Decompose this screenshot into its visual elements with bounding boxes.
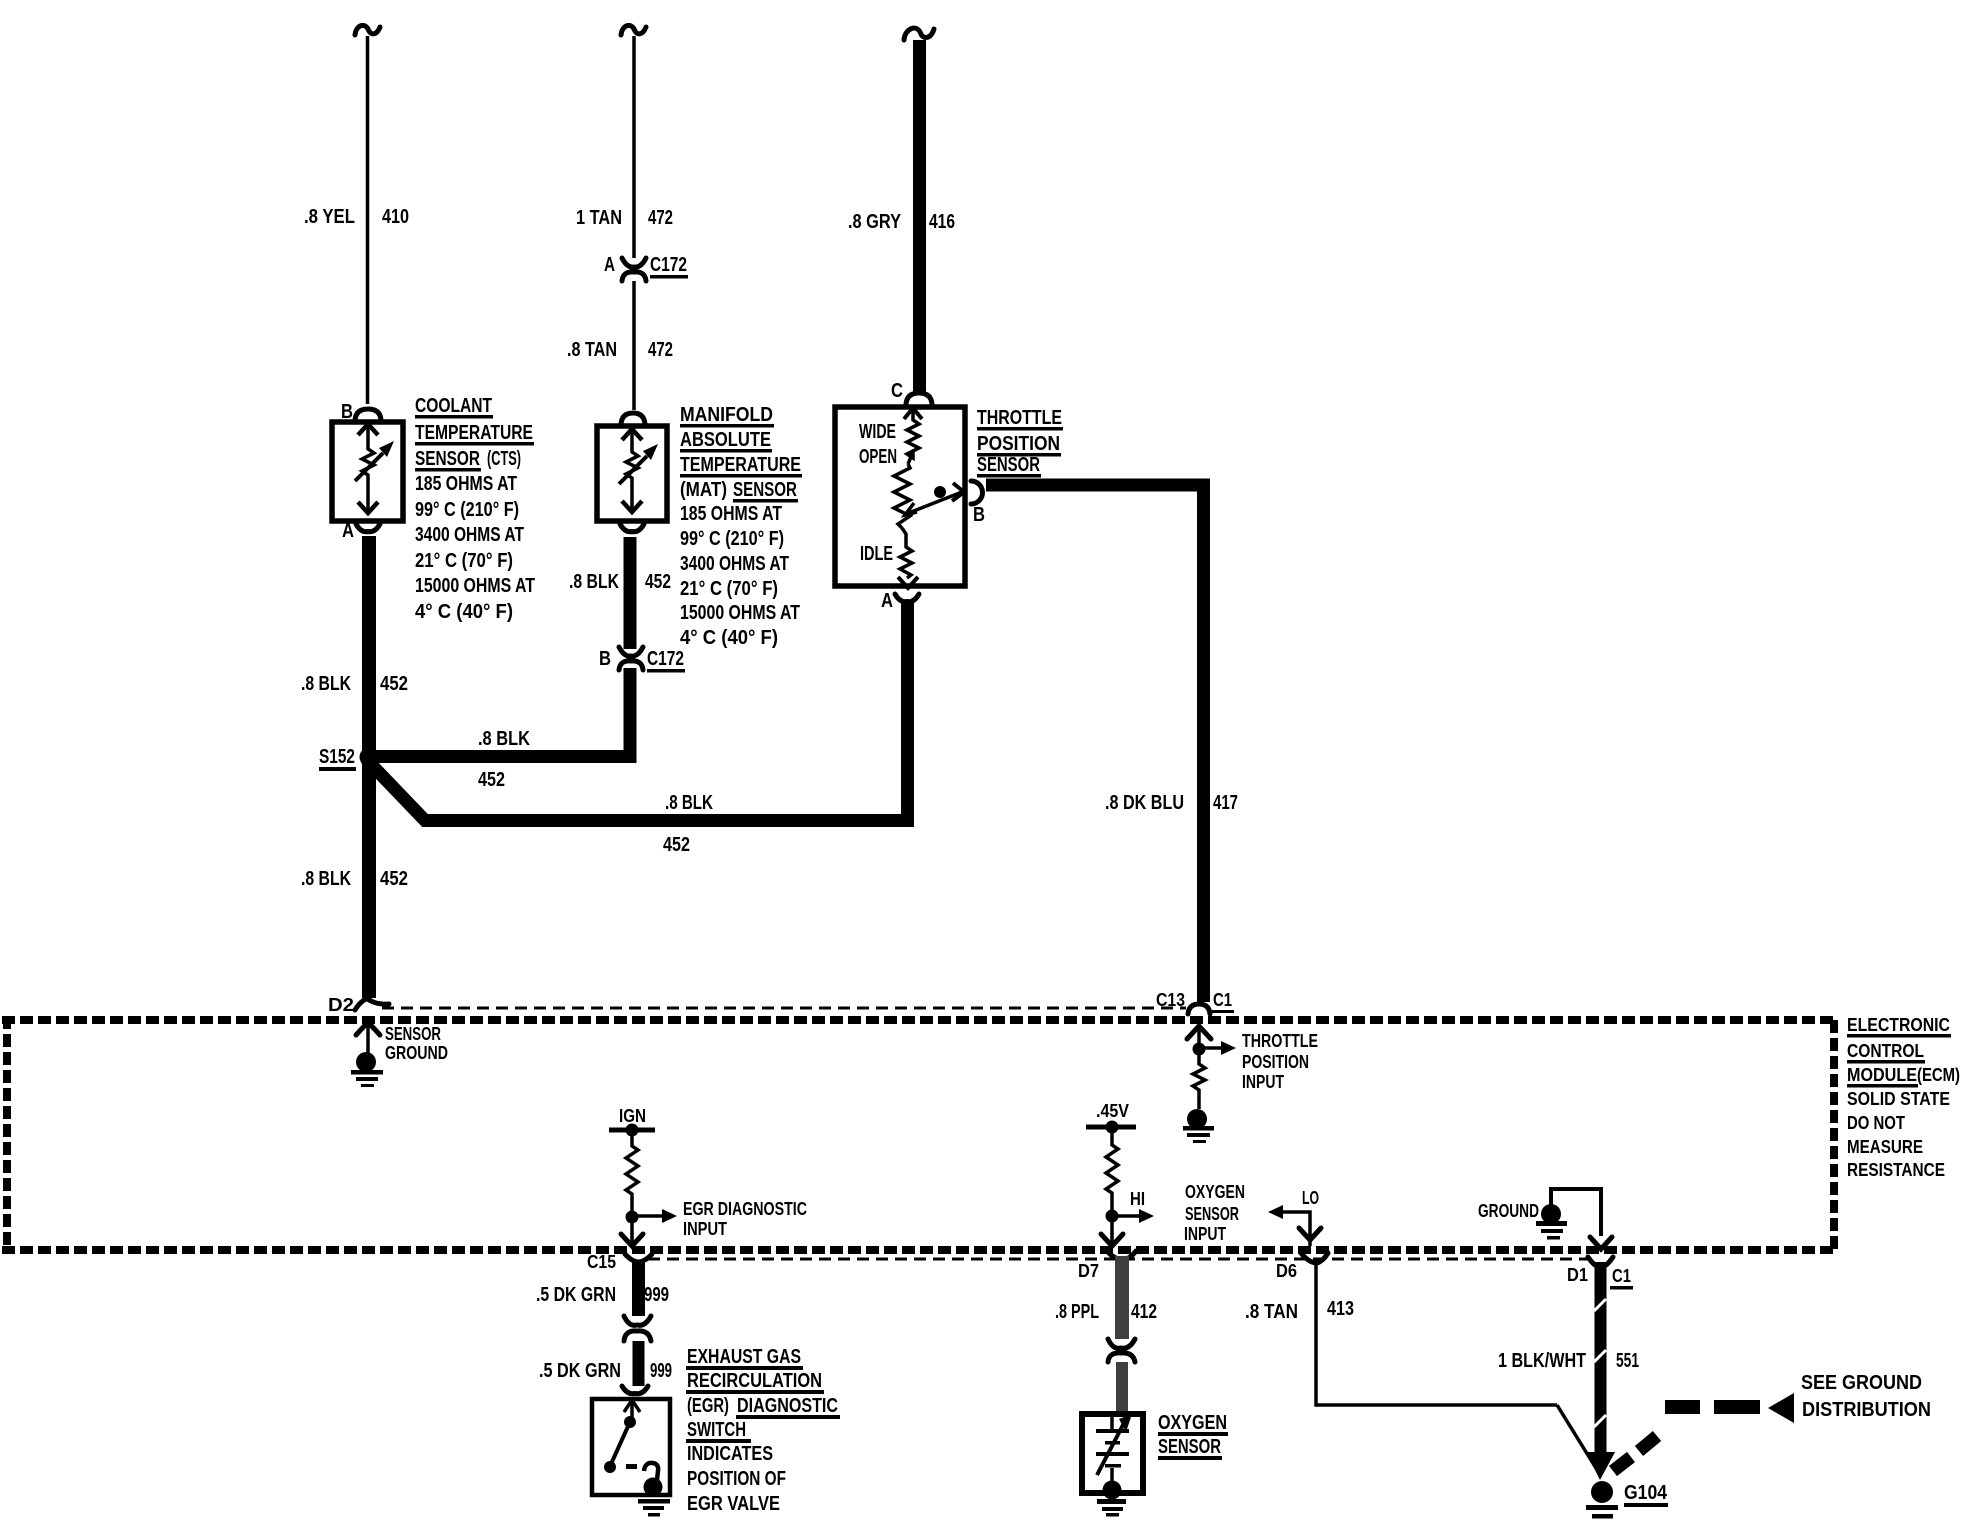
svg-text:1 TAN: 1 TAN <box>576 207 622 229</box>
svg-text:EXHAUST GAS: EXHAUST GAS <box>687 1346 801 1368</box>
svg-text:15000 OHMS AT: 15000 OHMS AT <box>415 575 535 597</box>
EGR switch symbol <box>604 1400 663 1497</box>
svg-text:.45V: .45V <box>1096 1101 1129 1121</box>
connector C172 (B) inline <box>619 647 643 670</box>
EGR switch title text <box>686 1346 840 1515</box>
svg-text:4° C (40° F): 4° C (40° F) <box>415 601 513 623</box>
throttle position input node dot <box>1193 1043 1206 1056</box>
svg-text:452: 452 <box>663 834 690 856</box>
throttle position input arrow inside ECM <box>1187 1026 1211 1045</box>
svg-text:SENSOR: SENSOR <box>977 454 1040 476</box>
svg-text:EGR DIAGNOSTIC: EGR DIAGNOSTIC <box>683 1199 807 1219</box>
svg-text:GROUND: GROUND <box>385 1043 448 1063</box>
svg-text:SWITCH: SWITCH <box>687 1419 746 1441</box>
svg-text:472: 472 <box>648 207 673 229</box>
svg-text:.8 PPL: .8 PPL <box>1055 1301 1099 1323</box>
svg-text:POSITION OF: POSITION OF <box>687 1468 786 1490</box>
svg-text:INPUT: INPUT <box>1242 1072 1284 1092</box>
svg-text:MEASURE: MEASURE <box>1847 1137 1923 1157</box>
svg-text:.8 GRY: .8 GRY <box>848 211 902 233</box>
svg-text:MODULE: MODULE <box>1847 1065 1917 1085</box>
connector gull at D7 <box>1107 1251 1122 1260</box>
svg-text:SENSOR: SENSOR <box>733 479 797 501</box>
svg-text:4° C (40° F): 4° C (40° F) <box>680 627 778 649</box>
EGR DIAGNOSTIC INPUT label <box>683 1199 807 1239</box>
svg-text:OPEN: OPEN <box>859 446 897 468</box>
ECM dashed border right <box>1830 1020 1838 1250</box>
wire 452 riser upper segment <box>624 537 637 649</box>
svg-text:452: 452 <box>380 673 408 695</box>
svg-text:452: 452 <box>380 868 408 890</box>
connector dashed line C15 to D1 <box>648 1258 1588 1261</box>
svg-text:SENSOR: SENSOR <box>1185 1204 1239 1224</box>
connector pin A gull at CTS bottom <box>356 524 380 532</box>
connector C13 dome <box>1188 1004 1210 1014</box>
svg-text:G104: G104 <box>1624 1482 1668 1504</box>
svg-text:OXYGEN: OXYGEN <box>1185 1182 1245 1202</box>
svg-text:185 OHMS AT: 185 OHMS AT <box>680 503 782 525</box>
svg-text:SOLID STATE: SOLID STATE <box>1847 1089 1950 1109</box>
throttle position input right arrow <box>1199 1041 1236 1055</box>
svg-text:C172: C172 <box>647 648 684 670</box>
wire 452 S152 down to ECM D2 <box>362 757 376 998</box>
svg-text:21° C (70° F): 21° C (70° F) <box>680 578 778 600</box>
coolant temperature sensor CTS box <box>332 422 403 521</box>
wire 999 (.5 DK GRN) lower segment <box>633 1341 645 1386</box>
svg-text:RECIRCULATION: RECIRCULATION <box>687 1370 822 1392</box>
wire 999 (.5 DK GRN) upper stub <box>632 1260 645 1316</box>
svg-text:WIDE: WIDE <box>859 421 896 443</box>
svg-text:.8 TAN: .8 TAN <box>1245 1301 1298 1323</box>
svg-text:185 OHMS AT: 185 OHMS AT <box>415 473 517 495</box>
thermistor symbol in CTS <box>355 424 394 513</box>
svg-text:(ECM): (ECM) <box>1917 1065 1960 1085</box>
reference arrow to ground distribution <box>1768 1393 1794 1423</box>
svg-text:SEE GROUND: SEE GROUND <box>1801 1372 1922 1394</box>
svg-text:.8 BLK: .8 BLK <box>301 673 351 695</box>
svg-text:417: 417 <box>1213 792 1238 814</box>
wire 417 (.8 DK BLU) from TPS B <box>986 485 1204 1002</box>
svg-text:.8 BLK: .8 BLK <box>478 728 530 750</box>
connector C172 (A) inline <box>622 258 646 281</box>
wire 410 (.8 YEL) vertical <box>366 36 370 404</box>
ECM dashed border left <box>3 1016 11 1252</box>
resistor from .45V <box>1106 1130 1118 1211</box>
EGR down arrow to C15 <box>621 1217 643 1246</box>
THROTTLE POSITION INPUT label <box>1242 1031 1318 1092</box>
svg-text:ABSOLUTE: ABSOLUTE <box>680 429 771 451</box>
connector pin A gull at TPS bottom <box>895 594 919 602</box>
svg-text:410: 410 <box>382 206 409 228</box>
svg-text:C1: C1 <box>1612 1266 1631 1286</box>
svg-text:IGN: IGN <box>619 1106 646 1126</box>
sensor ground symbol inside ECM <box>351 1052 383 1087</box>
svg-text:3400 OHMS AT: 3400 OHMS AT <box>680 553 789 575</box>
resistor inside ECM below TPI dot <box>1193 1055 1205 1109</box>
svg-text:.5 DK GRN: .5 DK GRN <box>536 1284 616 1306</box>
svg-text:(CTS): (CTS) <box>487 448 521 470</box>
svg-text:D1: D1 <box>1567 1265 1588 1285</box>
svg-text:99° C (210° F): 99° C (210° F) <box>680 528 784 550</box>
svg-text:15000 OHMS AT: 15000 OHMS AT <box>680 602 800 624</box>
svg-text:.5 DK GRN: .5 DK GRN <box>539 1360 621 1382</box>
svg-text:THROTTLE: THROTTLE <box>1242 1031 1318 1051</box>
svg-text:A: A <box>604 254 615 276</box>
wire 472 (.8 TAN) lower vertical <box>632 281 636 410</box>
ground symbol below oxygen sensor <box>1097 1499 1126 1517</box>
svg-text:THROTTLE: THROTTLE <box>977 407 1062 429</box>
EGR diagnostic switch box <box>592 1399 670 1495</box>
MAT title text <box>680 404 802 649</box>
svg-text:INDICATES: INDICATES <box>687 1443 773 1465</box>
.45V feed bar and dot <box>1086 1121 1136 1134</box>
svg-text:.8 DK BLU: .8 DK BLU <box>1105 792 1184 814</box>
svg-text:TEMPERATURE: TEMPERATURE <box>415 422 533 444</box>
wire 413 (.8 TAN) from D6 <box>1316 1262 1557 1405</box>
connector inline at O2 harness <box>1108 1339 1135 1362</box>
svg-text:HI: HI <box>1130 1189 1145 1209</box>
svg-text:B: B <box>599 648 611 670</box>
wire 412 lower segment <box>1116 1362 1128 1413</box>
svg-text:452: 452 <box>478 769 505 791</box>
wire 452 S152 to MAT riser <box>369 668 630 757</box>
ECM title text <box>1847 1015 1960 1180</box>
svg-text:.8 YEL: .8 YEL <box>304 206 355 228</box>
svg-text:.8 BLK: .8 BLK <box>665 792 713 814</box>
svg-text:1 BLK/WHT: 1 BLK/WHT <box>1498 1350 1586 1372</box>
OXYGEN SENSOR title <box>1158 1412 1228 1460</box>
wire 452 S152 diagonal to TPS A <box>366 603 908 821</box>
CTS title text <box>415 395 535 623</box>
HI right arrow <box>1112 1209 1154 1223</box>
svg-text:551: 551 <box>1616 1350 1639 1372</box>
connector pin C dome at TPS top <box>906 393 932 404</box>
LO elbow with left arrow to D6 <box>1268 1205 1321 1246</box>
svg-text:D6: D6 <box>1276 1261 1297 1281</box>
wire 413 diagonal into G104 <box>1557 1405 1599 1473</box>
svg-text:C172: C172 <box>650 254 687 276</box>
ground symbol below EGR switch <box>638 1499 670 1517</box>
connector gull at C15 <box>625 1254 638 1262</box>
svg-text:GROUND: GROUND <box>1478 1201 1539 1221</box>
svg-text:(MAT): (MAT) <box>680 479 727 501</box>
svg-text:413: 413 <box>1327 1298 1354 1320</box>
svg-text:POSITION: POSITION <box>1242 1052 1309 1072</box>
oxygen sensor box <box>1082 1414 1143 1493</box>
svg-text:DO NOT: DO NOT <box>1847 1113 1905 1133</box>
wire 410 continuation curl <box>355 25 380 35</box>
svg-text:SENSOR: SENSOR <box>1158 1436 1221 1458</box>
ground symbol inside ECM at TPI <box>1183 1109 1214 1143</box>
svg-text:DISTRIBUTION: DISTRIBUTION <box>1802 1399 1931 1421</box>
ground G104 symbol <box>1586 1481 1618 1519</box>
throttle position sensor TPS box <box>835 407 965 586</box>
svg-text:OXYGEN: OXYGEN <box>1158 1412 1227 1434</box>
svg-text:99° C (210° F): 99° C (210° F) <box>415 499 519 521</box>
svg-text:999: 999 <box>644 1284 669 1306</box>
connector gull at EGR switch <box>622 1386 648 1394</box>
IGN feed bar and dot <box>609 1124 655 1137</box>
svg-text:IDLE: IDLE <box>860 543 893 565</box>
svg-text:999: 999 <box>650 1360 672 1382</box>
wire 472 continuation curl <box>621 25 646 35</box>
wire 412 (.8 PPL) upper stub <box>1115 1256 1129 1339</box>
svg-text:416: 416 <box>929 211 955 233</box>
svg-text:SENSOR: SENSOR <box>385 1024 441 1044</box>
svg-text:A: A <box>881 590 893 612</box>
OXYGEN SENSOR INPUT label <box>1184 1182 1245 1244</box>
thermistor symbol in MAT <box>619 429 658 512</box>
svg-text:(EGR): (EGR) <box>687 1395 729 1417</box>
splice S152 junction dot <box>360 748 379 767</box>
svg-text:.8 BLK: .8 BLK <box>301 868 351 890</box>
ground symbol inside ECM right <box>1536 1204 1567 1240</box>
ECM dashed border bottom <box>2 1246 1833 1254</box>
svg-text:LO: LO <box>1302 1188 1319 1208</box>
EGR diagnostic node dot <box>626 1211 639 1224</box>
svg-text:RESISTANCE: RESISTANCE <box>1847 1160 1945 1180</box>
resistor from IGN <box>626 1133 638 1212</box>
svg-text:.8 BLK: .8 BLK <box>569 571 619 593</box>
EGR diagnostic right arrow <box>632 1209 677 1223</box>
svg-text:C15: C15 <box>587 1252 616 1272</box>
oxygen sensor input HI node dot <box>1106 1210 1119 1223</box>
TPS title text <box>977 407 1063 478</box>
dashed reference wire to ground distribution <box>1613 1400 1760 1471</box>
connector pin B dome at CTS top <box>355 409 381 420</box>
wire 472 (1 TAN) upper vertical <box>632 36 636 258</box>
svg-text:INPUT: INPUT <box>683 1219 727 1239</box>
SEE GROUND DISTRIBUTION label <box>1801 1372 1931 1421</box>
HI down arrow to D7 <box>1101 1216 1123 1246</box>
svg-text:D7: D7 <box>1078 1261 1099 1281</box>
svg-text:C: C <box>891 380 903 402</box>
svg-text:INPUT: INPUT <box>1184 1224 1226 1244</box>
svg-text:.8 TAN: .8 TAN <box>567 339 617 361</box>
wire 416 continuation curl <box>904 28 934 40</box>
connector gull at D1 <box>1588 1257 1600 1268</box>
svg-text:472: 472 <box>648 339 673 361</box>
ECM dashed border top <box>2 1016 1838 1024</box>
connector gull at MAT bottom <box>620 524 644 532</box>
potentiometer symbol in TPS <box>894 408 964 588</box>
svg-text:DIAGNOSTIC: DIAGNOSTIC <box>737 1395 838 1417</box>
svg-text:21° C (70° F): 21° C (70° F) <box>415 550 513 572</box>
svg-text:C1: C1 <box>1213 990 1232 1010</box>
connector gull at D2 <box>355 998 369 1010</box>
svg-text:A: A <box>342 520 354 542</box>
svg-text:452: 452 <box>645 571 671 593</box>
svg-text:S152: S152 <box>319 746 355 768</box>
svg-text:3400 OHMS AT: 3400 OHMS AT <box>415 524 524 546</box>
connector gull at D6 <box>1301 1253 1316 1263</box>
connector dashed line D2 to C13 <box>382 1007 1186 1010</box>
manifold absolute temperature MAT sensor box <box>597 426 667 521</box>
svg-text:TEMPERATURE: TEMPERATURE <box>680 454 801 476</box>
ground elbow wire to D1 <box>1551 1189 1612 1249</box>
svg-text:B: B <box>973 504 985 526</box>
sensor ground arrow inside ECM at D2 <box>356 1022 380 1053</box>
connector dome at MAT top <box>621 413 645 424</box>
svg-text:C13: C13 <box>1156 990 1185 1010</box>
oxygen sensor cell symbol <box>1096 1414 1132 1500</box>
connector inline at C15 harness <box>624 1316 651 1341</box>
svg-text:SENSOR: SENSOR <box>415 448 480 470</box>
svg-text:CONTROL: CONTROL <box>1847 1041 1924 1061</box>
svg-text:EGR VALVE: EGR VALVE <box>687 1493 780 1515</box>
connector pin B arc at TPS right <box>971 481 983 504</box>
svg-text:ELECTRONIC: ELECTRONIC <box>1847 1015 1950 1035</box>
svg-text:D2: D2 <box>328 995 354 1015</box>
wire 551 (1 BLK/WHT) <box>1586 1262 1615 1480</box>
svg-text:POSITION: POSITION <box>977 433 1060 455</box>
svg-text:412: 412 <box>1131 1301 1157 1323</box>
svg-text:MANIFOLD: MANIFOLD <box>680 404 773 426</box>
wire 416 (.8 GRY) thick vertical <box>913 40 926 392</box>
wire 452 CTS to S152 thick <box>362 536 376 760</box>
svg-text:COOLANT: COOLANT <box>415 395 492 417</box>
